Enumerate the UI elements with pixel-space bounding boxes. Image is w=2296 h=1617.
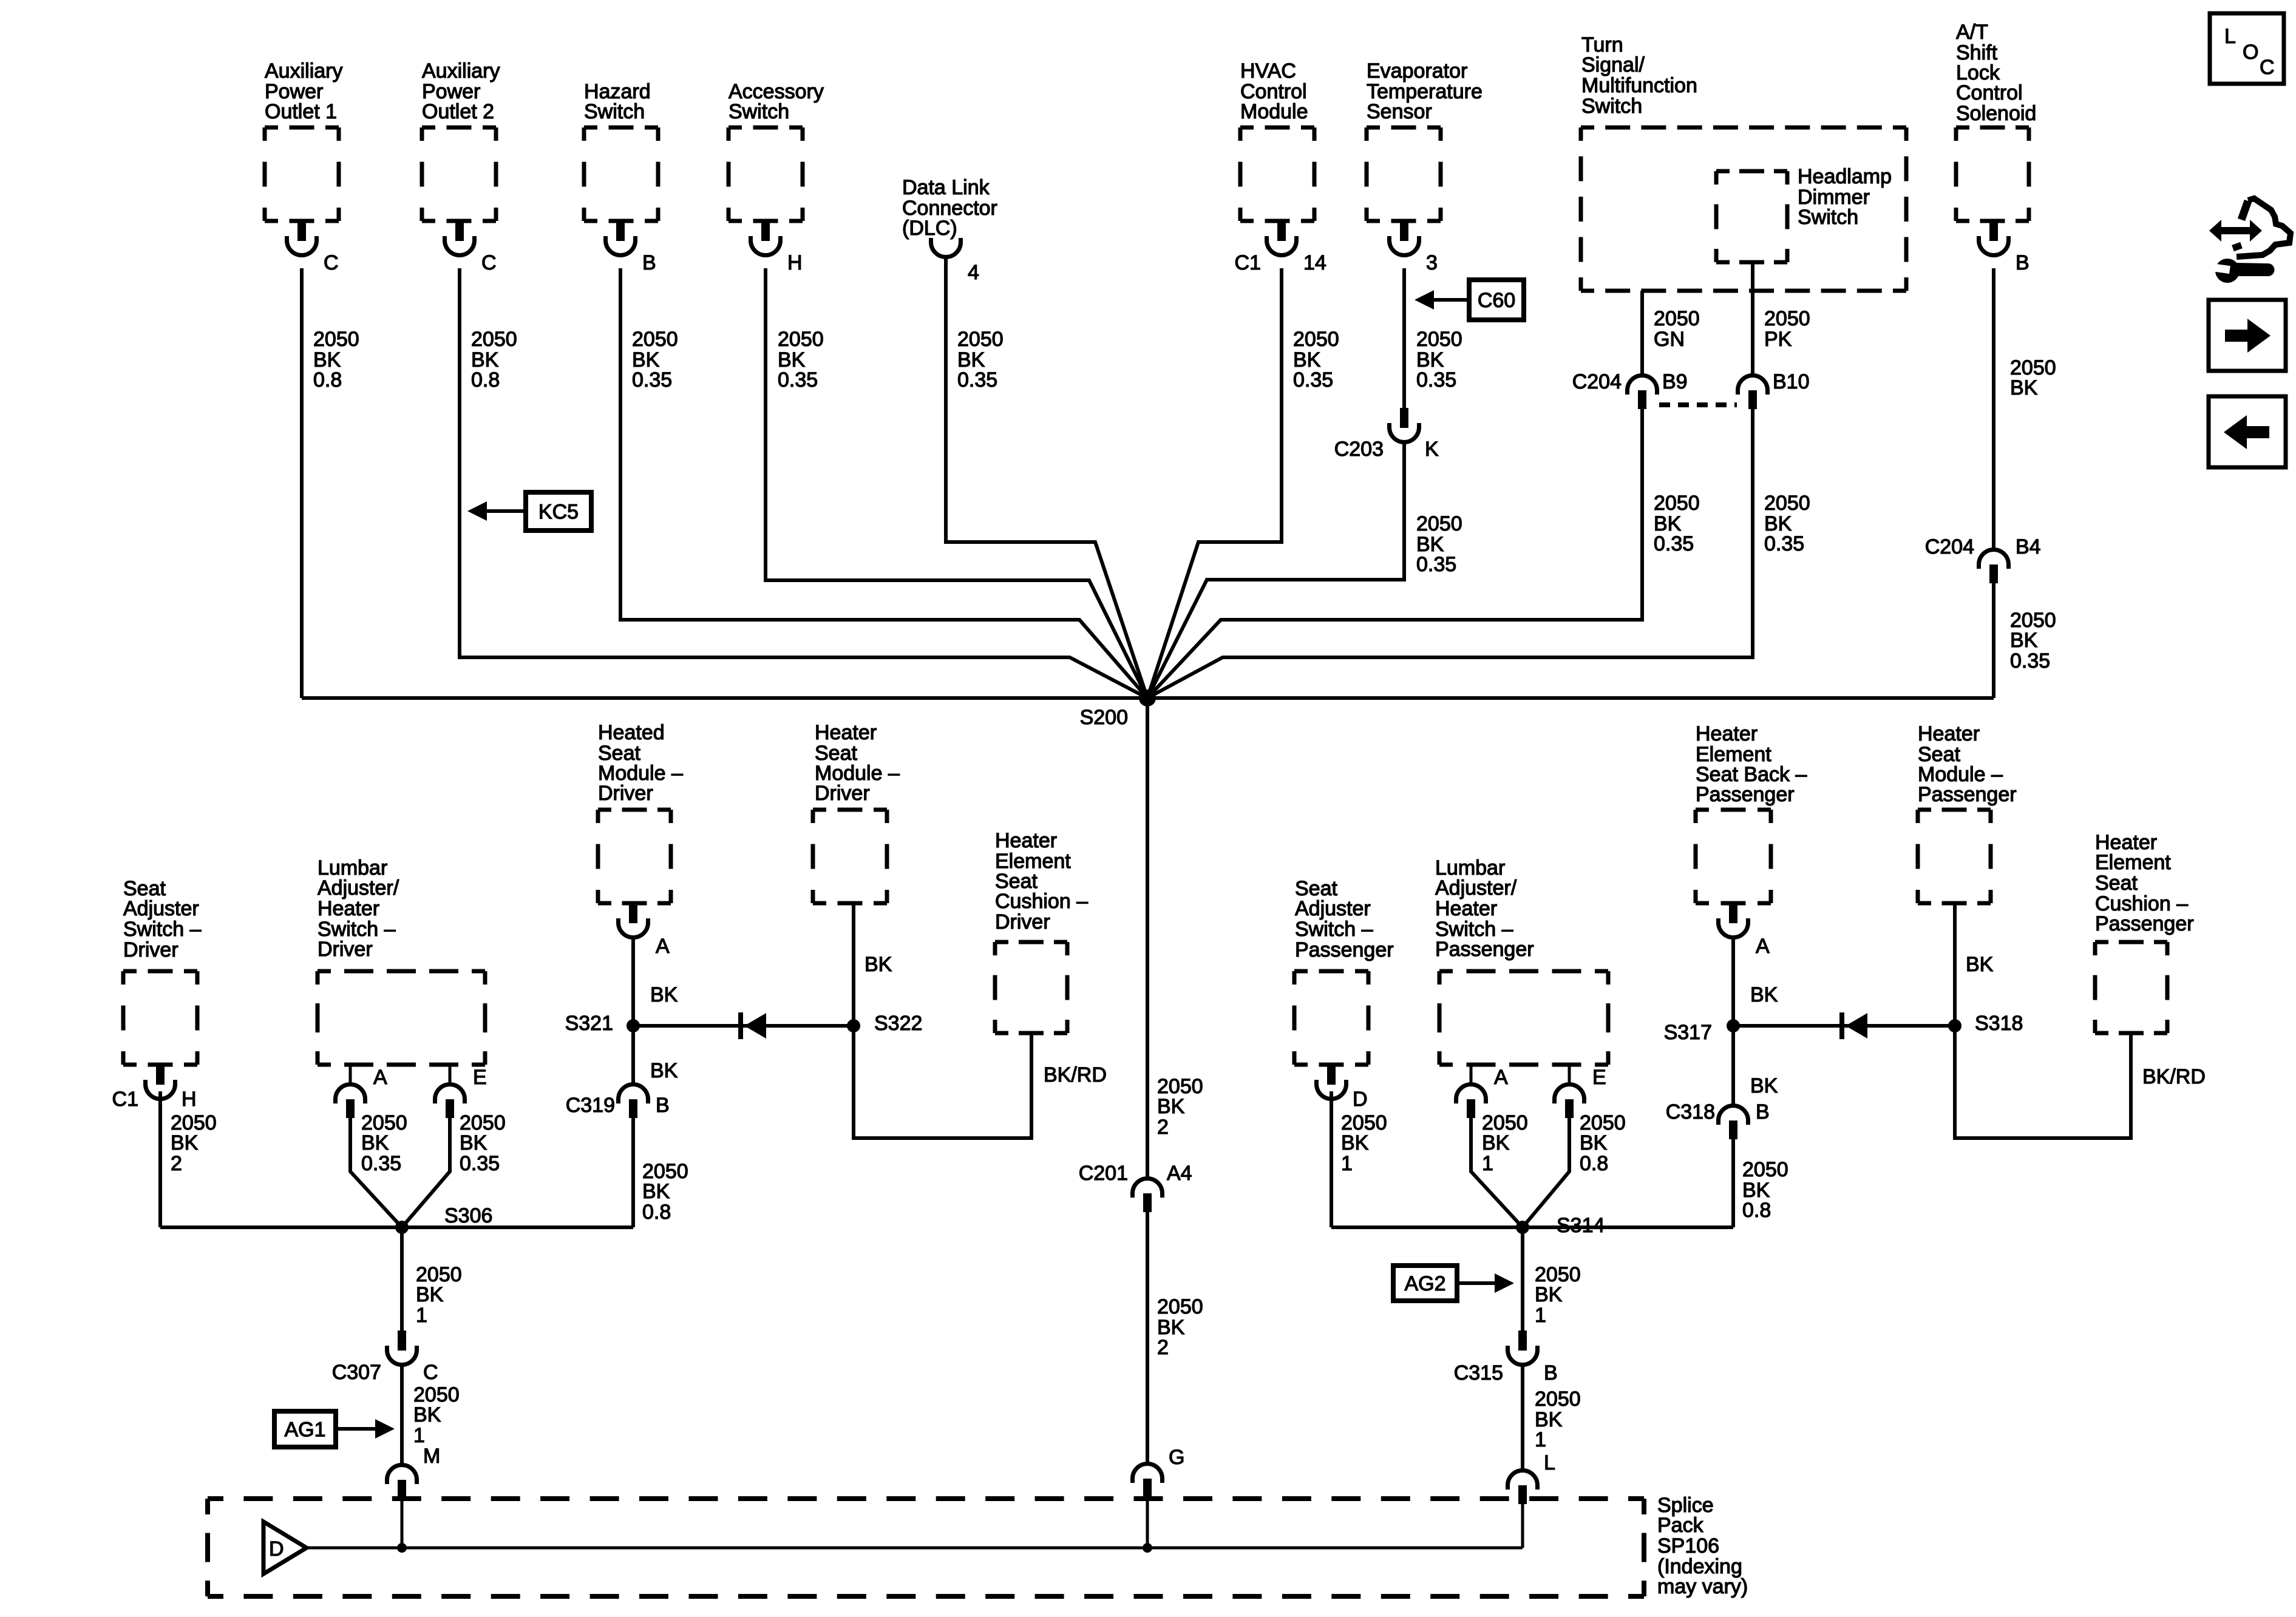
svg-text:Pack: Pack (1657, 1514, 1704, 1537)
svg-text:2050: 2050 (471, 328, 517, 351)
svg-text:BK/RD: BK/RD (1044, 1063, 1107, 1086)
svg-text:Solenoid: Solenoid (1956, 102, 2036, 125)
wire evaporator lower (1147, 441, 1404, 698)
wire heater seat module passenger (1953, 903, 1957, 1026)
svg-text:C: C (423, 1361, 438, 1384)
connector C204 B4 (1979, 550, 2009, 569)
svg-text:AG1: AG1 (284, 1419, 325, 1442)
svg-text:BK: BK (1341, 1131, 1369, 1154)
wire aux outlet 1 to S200 bus (300, 268, 304, 698)
svg-text:B: B (1756, 1100, 1770, 1124)
svg-text:Heater: Heater (1696, 722, 1758, 745)
wire seat back passenger (1731, 936, 1735, 1026)
headlamp dimmer switch (1716, 171, 1787, 262)
svg-text:C315: C315 (1454, 1361, 1503, 1385)
wire M to splice bus (401, 1498, 404, 1548)
svg-text:1: 1 (416, 1304, 427, 1327)
svg-text:Driver: Driver (598, 782, 653, 805)
svg-text:A/T: A/T (1956, 21, 1988, 44)
svg-text:A: A (1756, 935, 1770, 958)
wire S322 to cushion driver (854, 1026, 1031, 1138)
svg-text:HVAC: HVAC (1240, 59, 1296, 83)
wire S321 to S322 (633, 1024, 854, 1028)
svg-text:(DLC): (DLC) (902, 217, 957, 240)
wire A/T lower (1992, 583, 1995, 698)
wire accessory switch (766, 268, 1147, 698)
svg-text:C201: C201 (1079, 1162, 1128, 1185)
svg-text:Heater: Heater (815, 721, 877, 744)
svg-text:C: C (2260, 56, 2275, 79)
svg-text:0.35: 0.35 (632, 368, 672, 392)
svg-text:2: 2 (1157, 1336, 1169, 1359)
svg-text:Outlet 2: Outlet 2 (422, 100, 494, 123)
svg-text:S200: S200 (1080, 706, 1128, 729)
svg-text:14: 14 (1303, 251, 1326, 274)
svg-text:S318: S318 (1975, 1012, 2023, 1035)
svg-text:2050: 2050 (1764, 307, 1810, 330)
wire S306 down (400, 1227, 404, 1331)
wire L to splice bus (1521, 1503, 1524, 1548)
svg-text:0.35: 0.35 (1416, 553, 1456, 576)
svg-text:0.8: 0.8 (471, 368, 500, 392)
svg-text:2050: 2050 (1157, 1295, 1203, 1318)
svg-text:A: A (656, 935, 670, 958)
svg-text:BK: BK (361, 1131, 389, 1154)
svg-text:KC5: KC5 (538, 501, 579, 524)
svg-text:0.35: 0.35 (957, 368, 997, 392)
svg-text:Signal/: Signal/ (1581, 53, 1645, 76)
svg-text:Switch –: Switch – (1295, 918, 1373, 941)
svg-text:S317: S317 (1664, 1021, 1712, 1044)
svg-text:2050: 2050 (1764, 492, 1810, 515)
svg-text:Switch: Switch (584, 100, 645, 123)
svg-text:B: B (2016, 251, 2029, 274)
wire headlamp dimmer B10 upper (1751, 262, 1754, 377)
wire seat adjuster driver (158, 1091, 162, 1227)
svg-text:BK: BK (1535, 1283, 1563, 1306)
svg-text:Evaporator: Evaporator (1367, 59, 1467, 83)
svg-text:Driver: Driver (123, 938, 178, 961)
svg-text:Adjuster/: Adjuster/ (318, 876, 399, 900)
wire G to splice bus (1146, 1497, 1149, 1548)
connector C201 A4 (1133, 1179, 1163, 1198)
svg-text:Heater: Heater (1918, 722, 1980, 745)
svg-text:C1: C1 (1235, 251, 1261, 274)
diode driver (738, 1012, 743, 1039)
wire DLC (946, 256, 1147, 698)
svg-text:C204: C204 (1925, 535, 1974, 558)
wire hazard switch (620, 268, 1147, 698)
svg-text:SP106: SP106 (1657, 1534, 1719, 1558)
svg-text:BK: BK (416, 1283, 444, 1306)
svg-text:0.8: 0.8 (642, 1201, 671, 1224)
svg-text:C: C (324, 251, 339, 274)
splice S321 (627, 1019, 640, 1032)
svg-text:BK: BK (1157, 1095, 1185, 1118)
right arrow navigation box (2209, 300, 2286, 371)
connector C307 (398, 1331, 406, 1351)
connector C204 B9 (1628, 376, 1657, 395)
svg-text:S314: S314 (1557, 1214, 1605, 1237)
svg-text:BK: BK (2010, 629, 2038, 652)
diode passenger (1839, 1012, 1844, 1039)
svg-text:2050: 2050 (1535, 1388, 1581, 1411)
wire S318 to cushion passenger (1955, 1026, 2131, 1138)
wire S317 to S318 (1733, 1024, 1955, 1028)
svg-text:1: 1 (1341, 1152, 1353, 1175)
svg-text:2050: 2050 (1293, 328, 1339, 351)
wire S317 down (1731, 1026, 1735, 1107)
wire heated seat module driver (631, 936, 635, 1026)
svg-text:Passenger: Passenger (1435, 938, 1534, 961)
svg-text:Heater: Heater (1435, 897, 1497, 920)
svg-text:0.8: 0.8 (313, 368, 342, 392)
svg-text:2050: 2050 (1654, 492, 1700, 515)
driver ground bus (160, 1225, 633, 1229)
svg-text:Module: Module (1240, 100, 1308, 123)
splice pack bus (307, 1547, 1523, 1550)
svg-text:0.8: 0.8 (1580, 1152, 1608, 1175)
svg-text:BK: BK (650, 983, 678, 1006)
svg-text:BK: BK (642, 1180, 670, 1203)
svg-text:2050: 2050 (632, 328, 678, 351)
wire aux outlet 2 (460, 268, 1147, 698)
svg-text:0.35: 0.35 (2010, 649, 2050, 673)
svg-text:S322: S322 (874, 1012, 922, 1035)
wire C318 to bus (1731, 1139, 1735, 1227)
svg-text:BK: BK (1482, 1131, 1510, 1154)
wire heater seat module driver (852, 903, 855, 1026)
svg-text:2050: 2050 (957, 328, 1004, 351)
splice pack SP106 box (208, 1499, 1644, 1596)
svg-text:Heater: Heater (995, 829, 1057, 852)
svg-text:D: D (1353, 1088, 1368, 1111)
svg-text:2050: 2050 (1416, 328, 1462, 351)
svg-text:BK: BK (2010, 376, 2038, 399)
svg-text:E: E (473, 1066, 487, 1089)
svg-text:Passenger: Passenger (1295, 938, 1394, 961)
svg-text:0.35: 0.35 (1293, 368, 1333, 392)
reference tag KC5 (526, 492, 591, 531)
svg-text:Passenger: Passenger (1918, 783, 2017, 806)
svg-text:C318: C318 (1666, 1100, 1715, 1124)
svg-text:S321: S321 (565, 1012, 613, 1035)
splice S317 (1727, 1019, 1740, 1032)
connector C204 B10 (1738, 376, 1768, 395)
svg-text:0.35: 0.35 (361, 1152, 401, 1175)
connector C318 (1719, 1106, 1748, 1125)
svg-text:Headlamp: Headlamp (1798, 165, 1892, 188)
svg-text:Driver: Driver (815, 782, 870, 805)
wire C319 to bus (631, 1117, 635, 1227)
svg-text:O: O (2243, 41, 2258, 64)
connector C319 (619, 1085, 648, 1104)
svg-text:BK: BK (171, 1131, 199, 1154)
svg-text:1: 1 (1535, 1304, 1546, 1327)
svg-text:C1: C1 (112, 1088, 138, 1111)
svg-text:Switch: Switch (1581, 95, 1642, 118)
svg-text:S306: S306 (444, 1204, 492, 1227)
wire C307 to M (400, 1363, 404, 1466)
wire C201 to G (1146, 1212, 1149, 1465)
wire turn signal B9 upper (1640, 291, 1644, 377)
svg-text:3: 3 (1426, 251, 1438, 274)
svg-text:2: 2 (171, 1152, 182, 1175)
svg-text:1: 1 (1482, 1152, 1493, 1175)
svg-text:Auxiliary: Auxiliary (265, 59, 342, 83)
wire B9 lower (1147, 408, 1642, 698)
svg-text:E: E (1592, 1066, 1606, 1089)
svg-text:2: 2 (1157, 1116, 1169, 1139)
svg-text:H: H (787, 251, 803, 274)
svg-text:AG2: AG2 (1404, 1272, 1445, 1295)
svg-text:K: K (1425, 438, 1439, 461)
svg-text:BK: BK (413, 1403, 441, 1426)
service icon wrench with arrows (2209, 220, 2262, 242)
reference tag AG1 (274, 1411, 336, 1447)
svg-text:Control: Control (1956, 81, 2023, 104)
lumbar driver pin A (349, 1065, 352, 1086)
svg-text:2050: 2050 (1416, 512, 1462, 535)
svg-text:Data Link: Data Link (902, 176, 990, 199)
svg-text:may vary): may vary) (1657, 1575, 1748, 1598)
wire S314 down (1521, 1227, 1524, 1331)
svg-text:Seat: Seat (2095, 872, 2138, 895)
svg-text:B4: B4 (2016, 535, 2041, 558)
svg-text:G: G (1169, 1446, 1184, 1469)
svg-text:Adjuster/: Adjuster/ (1435, 876, 1517, 900)
splice S314 (1516, 1221, 1529, 1234)
svg-text:B9: B9 (1662, 370, 1688, 393)
svg-text:Driver: Driver (995, 910, 1050, 934)
svg-text:H: H (182, 1088, 197, 1111)
svg-text:BK: BK (1750, 983, 1778, 1006)
svg-text:Switch: Switch (1798, 206, 1858, 229)
svg-text:Switch: Switch (729, 100, 789, 123)
splice S322 (847, 1019, 860, 1032)
svg-text:Auxiliary: Auxiliary (422, 59, 500, 83)
svg-text:B: B (656, 1094, 670, 1117)
svg-text:BK: BK (650, 1059, 678, 1082)
LOC legend box (2210, 13, 2284, 84)
lumbar passenger pin A (1470, 1065, 1473, 1086)
svg-text:BK: BK (460, 1131, 487, 1154)
svg-text:PK: PK (1764, 328, 1792, 351)
svg-text:2050: 2050 (1742, 1158, 1788, 1181)
svg-text:M: M (423, 1445, 440, 1468)
svg-text:1: 1 (413, 1424, 425, 1447)
splice S200 (1139, 690, 1156, 707)
svg-text:Element: Element (2095, 851, 2171, 874)
svg-text:2050: 2050 (1654, 307, 1700, 330)
connector C203 (1400, 408, 1408, 428)
svg-text:Adjuster: Adjuster (123, 897, 199, 920)
dashed link C204 (1659, 402, 1737, 407)
wire seat adjuster passenger (1330, 1091, 1333, 1227)
svg-text:0.35: 0.35 (778, 368, 818, 392)
svg-text:C204: C204 (1572, 370, 1622, 393)
svg-text:Driver: Driver (318, 938, 373, 961)
wire S200 down (1146, 698, 1149, 1180)
svg-text:BK: BK (1580, 1131, 1608, 1154)
svg-text:Heated: Heated (598, 721, 665, 744)
junction G bus (1143, 1543, 1152, 1553)
splice S306 (395, 1221, 409, 1234)
S200 bus (302, 696, 1994, 700)
passenger ground bus (1331, 1225, 1733, 1229)
svg-text:GN: GN (1654, 328, 1685, 351)
svg-text:2050: 2050 (778, 328, 824, 351)
svg-text:2050: 2050 (313, 328, 359, 351)
wire HVAC (1147, 268, 1282, 698)
svg-text:C: C (481, 251, 497, 274)
reference tag AG2 (1393, 1266, 1457, 1301)
svg-text:L: L (2224, 25, 2236, 48)
svg-text:Heater: Heater (318, 897, 379, 920)
svg-text:L: L (1544, 1451, 1555, 1474)
svg-text:BK/RD: BK/RD (2142, 1065, 2206, 1088)
svg-text:A4: A4 (1167, 1162, 1192, 1185)
svg-text:BK: BK (1966, 953, 1994, 976)
svg-text:B: B (1544, 1361, 1558, 1385)
wire B10 lower (1147, 408, 1753, 698)
reference tag C60 (1469, 280, 1524, 320)
svg-text:C60: C60 (1478, 289, 1515, 312)
svg-text:BK: BK (1750, 1074, 1778, 1097)
connector C315 (1518, 1331, 1527, 1351)
wire C315 to L (1521, 1363, 1524, 1472)
svg-text:Outlet 1: Outlet 1 (265, 100, 337, 123)
lumbar passenger pin E (1568, 1065, 1571, 1086)
svg-text:Switch –: Switch – (123, 918, 202, 941)
svg-text:Multifunction: Multifunction (1581, 74, 1697, 97)
svg-text:BK: BK (864, 953, 892, 976)
wire S321 down (631, 1026, 635, 1086)
svg-text:B: B (642, 251, 656, 274)
lumbar driver pin E (449, 1065, 452, 1086)
svg-text:C307: C307 (332, 1361, 381, 1384)
svg-text:0.35: 0.35 (1416, 368, 1456, 392)
svg-text:B10: B10 (1773, 370, 1810, 393)
svg-text:C203: C203 (1334, 438, 1384, 461)
junction M bus (397, 1543, 407, 1553)
splice S318 (1948, 1019, 1961, 1032)
svg-text:Cushion –: Cushion – (995, 890, 1088, 913)
svg-text:0.35: 0.35 (1654, 532, 1694, 555)
svg-text:1: 1 (1535, 1428, 1546, 1451)
ground symbol D triangle (263, 1522, 307, 1574)
left arrow navigation box (2209, 396, 2286, 467)
wire evaporator upper (1402, 268, 1406, 408)
svg-text:0.35: 0.35 (460, 1152, 500, 1175)
svg-text:Passenger: Passenger (2095, 912, 2194, 935)
svg-text:C319: C319 (566, 1094, 615, 1117)
svg-text:D: D (269, 1537, 284, 1561)
svg-text:4: 4 (968, 261, 979, 284)
svg-text:Sensor: Sensor (1367, 100, 1432, 123)
svg-text:0.8: 0.8 (1742, 1199, 1771, 1222)
svg-text:A: A (1494, 1066, 1508, 1089)
svg-text:Adjuster: Adjuster (1295, 897, 1371, 920)
svg-text:A: A (373, 1066, 387, 1089)
svg-text:0.35: 0.35 (1764, 532, 1804, 555)
svg-text:Passenger: Passenger (1696, 783, 1795, 806)
wire A/T upper (1992, 268, 1995, 551)
